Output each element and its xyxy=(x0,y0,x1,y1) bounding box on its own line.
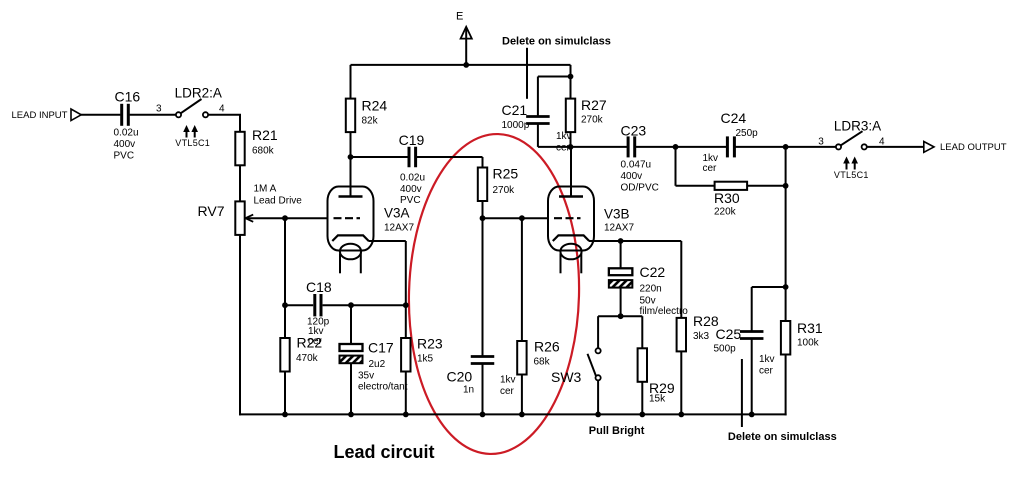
svg-text:1n: 1n xyxy=(463,385,474,396)
svg-text:1000p: 1000p xyxy=(502,120,530,131)
svg-text:2u2: 2u2 xyxy=(369,359,386,370)
svg-text:82k: 82k xyxy=(362,116,379,127)
svg-text:C20: C20 xyxy=(447,369,473,385)
svg-text:V3A: V3A xyxy=(384,206,410,221)
svg-text:4: 4 xyxy=(879,137,885,148)
svg-text:470k: 470k xyxy=(296,353,319,364)
svg-text:R26: R26 xyxy=(534,339,560,355)
svg-text:LDR3:A: LDR3:A xyxy=(834,119,881,134)
svg-text:4: 4 xyxy=(219,104,225,115)
svg-text:PVC: PVC xyxy=(400,195,421,206)
svg-text:R27: R27 xyxy=(581,97,607,113)
svg-text:0.02u: 0.02u xyxy=(114,128,139,139)
svg-text:C22: C22 xyxy=(640,264,666,280)
svg-text:35v: 35v xyxy=(358,371,374,382)
svg-text:15k: 15k xyxy=(649,394,666,405)
svg-text:cer: cer xyxy=(500,386,515,397)
svg-text:electro/tant: electro/tant xyxy=(358,382,408,393)
svg-text:PVC: PVC xyxy=(114,150,135,161)
svg-text:3k3: 3k3 xyxy=(693,331,710,342)
svg-text:C23: C23 xyxy=(621,123,647,139)
svg-text:1kv: 1kv xyxy=(556,131,572,142)
svg-text:C16: C16 xyxy=(115,89,141,105)
svg-text:Pull Bright: Pull Bright xyxy=(589,425,645,437)
svg-text:0.02u: 0.02u xyxy=(400,173,425,184)
svg-text:C24: C24 xyxy=(721,110,747,126)
svg-text:LEAD INPUT: LEAD INPUT xyxy=(12,110,68,121)
svg-text:OD/PVC: OD/PVC xyxy=(621,183,659,194)
svg-text:Lead circuit: Lead circuit xyxy=(334,442,435,462)
svg-text:1kv: 1kv xyxy=(500,375,516,386)
svg-text:400v: 400v xyxy=(400,184,422,195)
svg-text:0.047u: 0.047u xyxy=(621,160,652,171)
svg-text:film/electro: film/electro xyxy=(640,306,689,317)
svg-text:220n: 220n xyxy=(640,284,662,295)
svg-text:Delete on simulclass: Delete on simulclass xyxy=(502,36,611,48)
svg-text:RV7: RV7 xyxy=(198,203,225,219)
svg-text:cer: cer xyxy=(703,163,718,174)
svg-text:270k: 270k xyxy=(493,185,516,196)
svg-text:cer: cer xyxy=(556,143,571,154)
svg-text:68k: 68k xyxy=(534,357,551,368)
svg-text:LDR2:A: LDR2:A xyxy=(175,86,222,101)
svg-text:3: 3 xyxy=(818,137,824,148)
svg-text:VTL5C1: VTL5C1 xyxy=(175,138,210,148)
svg-text:SW3: SW3 xyxy=(551,369,582,385)
svg-text:270k: 270k xyxy=(581,115,604,126)
svg-text:220k: 220k xyxy=(714,207,737,218)
svg-text:V3B: V3B xyxy=(604,207,630,222)
svg-text:12AX7: 12AX7 xyxy=(604,223,634,234)
svg-text:R31: R31 xyxy=(797,320,823,336)
svg-text:Lead Drive: Lead Drive xyxy=(254,196,303,207)
svg-text:E: E xyxy=(456,11,463,23)
svg-text:VTL5C1: VTL5C1 xyxy=(834,170,869,180)
svg-text:R23: R23 xyxy=(417,336,443,352)
svg-text:12AX7: 12AX7 xyxy=(384,223,414,234)
svg-text:680k: 680k xyxy=(252,146,275,157)
svg-text:R24: R24 xyxy=(362,98,388,114)
svg-text:R21: R21 xyxy=(252,127,278,143)
svg-text:C21: C21 xyxy=(502,102,528,118)
svg-text:R22: R22 xyxy=(297,335,323,351)
svg-text:C17: C17 xyxy=(368,340,394,356)
svg-text:3: 3 xyxy=(156,104,162,115)
svg-text:1kv: 1kv xyxy=(759,354,775,365)
svg-text:cer: cer xyxy=(759,366,774,377)
svg-text:1M A: 1M A xyxy=(254,184,277,195)
svg-text:400v: 400v xyxy=(621,171,643,182)
svg-text:C19: C19 xyxy=(399,132,425,148)
svg-text:R25: R25 xyxy=(493,166,519,182)
svg-text:400v: 400v xyxy=(114,139,136,150)
svg-text:C18: C18 xyxy=(306,279,332,295)
svg-text:LEAD OUTPUT: LEAD OUTPUT xyxy=(940,142,1007,153)
svg-text:500p: 500p xyxy=(714,344,737,355)
svg-text:250p: 250p xyxy=(736,128,759,139)
svg-text:Delete on simulclass: Delete on simulclass xyxy=(728,431,837,443)
svg-text:R30: R30 xyxy=(714,190,740,206)
svg-text:100k: 100k xyxy=(797,338,820,349)
svg-text:1k5: 1k5 xyxy=(417,354,434,365)
svg-text:C25: C25 xyxy=(716,326,742,342)
